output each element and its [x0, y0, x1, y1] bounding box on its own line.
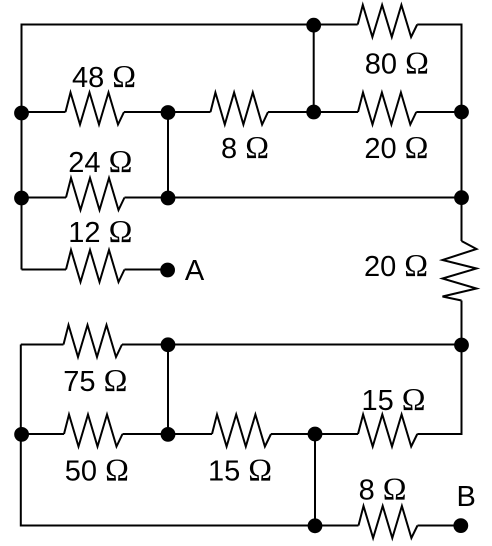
- svg-text:8 Ω: 8 Ω: [359, 471, 407, 507]
- svg-text:80 Ω: 80 Ω: [365, 45, 429, 81]
- svg-text:15 Ω: 15 Ω: [208, 452, 272, 488]
- svg-text:A: A: [185, 255, 205, 287]
- svg-text:12 Ω: 12 Ω: [68, 213, 132, 249]
- svg-text:20 Ω: 20 Ω: [364, 129, 428, 165]
- svg-text:15 Ω: 15 Ω: [361, 381, 425, 417]
- svg-text:B: B: [457, 481, 476, 513]
- svg-text:75 Ω: 75 Ω: [63, 362, 127, 398]
- svg-text:24 Ω: 24 Ω: [68, 143, 132, 179]
- svg-text:8 Ω: 8 Ω: [221, 129, 269, 165]
- svg-text:50 Ω: 50 Ω: [65, 452, 129, 488]
- svg-text:20 Ω: 20 Ω: [364, 247, 428, 283]
- svg-text:48 Ω: 48 Ω: [72, 58, 136, 94]
